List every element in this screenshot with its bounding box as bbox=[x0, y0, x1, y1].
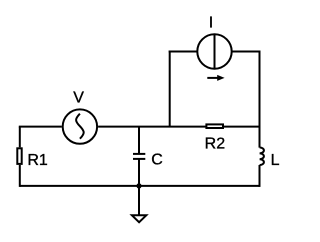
svg-text:I: I bbox=[209, 14, 213, 31]
junction dot bbox=[136, 183, 141, 188]
wire: left vertical top segment (R1 top lead) bbox=[19, 127, 21, 148]
current direction arrow bbox=[207, 77, 219, 79]
wire: current source right branch vertical down to R2 node bbox=[259, 51, 261, 148]
wire: inductor bottom lead bbox=[259, 165, 261, 187]
resistor R2 bbox=[206, 124, 223, 128]
svg-text:R2: R2 bbox=[205, 136, 226, 153]
wire: current source right branch horizontal bbox=[233, 51, 261, 53]
svg-text:R1: R1 bbox=[27, 152, 48, 169]
wire: R1 bottom lead bbox=[19, 165, 21, 187]
sine squiggle inside V bbox=[76, 114, 84, 139]
svg-text:L: L bbox=[271, 152, 280, 169]
resistor R1 bbox=[17, 148, 21, 164]
capacitor C plates bbox=[133, 153, 145, 155]
wire: top-left horizontal to voltage source bbox=[19, 126, 62, 128]
ground bbox=[132, 215, 146, 222]
svg-text:C: C bbox=[151, 151, 163, 168]
wire: V to R2 horizontal bbox=[98, 126, 206, 128]
op: voltage source V circle bbox=[63, 109, 97, 143]
wire: current source left branch horizontal bbox=[169, 51, 197, 53]
wire: R2 right lead bbox=[223, 126, 260, 128]
svg-text:V: V bbox=[73, 89, 84, 106]
wire: ground lead bbox=[138, 186, 140, 215]
wire: capacitor bottom lead bbox=[138, 159, 140, 186]
wire: capacitor top lead bbox=[138, 127, 140, 154]
wire: current source left branch vertical bbox=[169, 51, 171, 127]
wire: bottom horizontal bbox=[20, 185, 260, 187]
inductor L bbox=[260, 148, 264, 166]
op: current source I circle bbox=[197, 34, 231, 68]
current source internal line bbox=[214, 34, 216, 68]
